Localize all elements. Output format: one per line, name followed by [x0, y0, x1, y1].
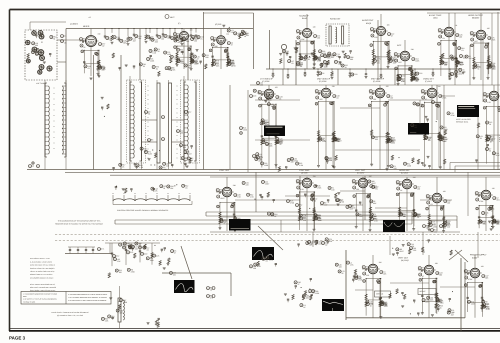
svg-text:56: 56: [280, 143, 282, 146]
svg-text:HORIZ OUTPUT: HORIZ OUTPUT: [468, 14, 484, 17]
svg-text:220: 220: [303, 219, 306, 222]
svg-text:47: 47: [311, 243, 313, 246]
svg-text:100: 100: [260, 84, 263, 87]
svg-text:2.2M: 2.2M: [174, 39, 178, 42]
svg-text:SYNC SEP: SYNC SEP: [219, 169, 230, 172]
svg-text:56: 56: [339, 201, 341, 204]
svg-text:100: 100: [318, 59, 321, 62]
svg-text:6AU6: 6AU6: [302, 17, 307, 20]
svg-text:.0047: .0047: [187, 153, 192, 156]
svg-text:56: 56: [53, 38, 55, 41]
svg-text:.001: .001: [496, 199, 500, 202]
svg-text:.01: .01: [375, 188, 378, 191]
svg-text:C25: C25: [156, 254, 159, 257]
svg-text:C22: C22: [419, 72, 422, 75]
svg-text:220: 220: [166, 165, 169, 168]
svg-text:.02: .02: [143, 65, 146, 68]
svg-text:220: 220: [451, 311, 454, 314]
svg-text:.005: .005: [269, 145, 273, 148]
svg-text:.01: .01: [496, 222, 499, 225]
svg-text:56: 56: [477, 67, 479, 70]
svg-text:R8: R8: [151, 139, 153, 142]
svg-text:(L) 6AL5: (L) 6AL5: [401, 172, 408, 175]
svg-text:2.2M: 2.2M: [299, 164, 303, 167]
svg-text:680: 680: [286, 52, 289, 55]
svg-text:100: 100: [373, 98, 376, 101]
svg-text:47: 47: [299, 206, 301, 209]
svg-text:.0047: .0047: [265, 183, 270, 186]
svg-text:136: 136: [492, 187, 495, 190]
svg-text:+45: +45: [88, 16, 91, 19]
svg-text:144: 144: [226, 33, 229, 36]
svg-text:.01: .01: [308, 58, 311, 61]
svg-text:C12: C12: [188, 111, 191, 114]
svg-text:100: 100: [119, 271, 122, 274]
svg-text:C18: C18: [253, 95, 256, 98]
svg-text:56: 56: [342, 272, 344, 275]
svg-text:100: 100: [331, 189, 334, 192]
svg-text:100: 100: [459, 36, 462, 39]
svg-text:266: 266: [379, 261, 382, 264]
svg-text:.01: .01: [156, 68, 159, 71]
svg-text:C22: C22: [130, 251, 133, 254]
svg-text:.02: .02: [102, 45, 105, 48]
svg-text:4. ALL VOLTAGES MEASURED WITH: 4. ALL VOLTAGES MEASURED WITH RESPECT TO…: [68, 297, 107, 299]
svg-text:2.2M: 2.2M: [195, 62, 199, 65]
svg-text:47: 47: [231, 44, 233, 47]
svg-text:100: 100: [186, 40, 189, 43]
svg-text:.02: .02: [146, 248, 149, 251]
svg-text:47: 47: [422, 275, 424, 278]
svg-text:.02: .02: [87, 67, 90, 70]
svg-text:.005: .005: [338, 63, 342, 66]
svg-text:12B4: 12B4: [433, 17, 437, 20]
svg-text:220: 220: [394, 167, 397, 170]
svg-text:100: 100: [317, 37, 320, 40]
svg-text:POWER SUPPLY: POWER SUPPLY: [470, 254, 487, 257]
svg-text:180: 180: [387, 23, 390, 26]
svg-text:.0047: .0047: [371, 182, 376, 185]
svg-text:AUDIO OUT: AUDIO OUT: [362, 19, 374, 22]
svg-text:.01: .01: [426, 227, 429, 230]
svg-text:(D) 6CB6: (D) 6CB6: [319, 80, 327, 83]
svg-text:(F) 6AL5: (F) 6AL5: [425, 80, 432, 83]
svg-text:.01: .01: [461, 49, 464, 52]
svg-text:.047: .047: [398, 61, 402, 64]
svg-text:56: 56: [158, 50, 160, 53]
svg-text:100: 100: [447, 202, 450, 205]
svg-text:238: 238: [332, 85, 335, 88]
svg-text:.005: .005: [154, 40, 158, 43]
svg-text:100: 100: [173, 274, 176, 277]
svg-text:.02: .02: [265, 259, 268, 262]
svg-text:2.2M: 2.2M: [269, 258, 273, 261]
svg-text:292: 292: [413, 176, 416, 179]
svg-text:.0047: .0047: [188, 66, 193, 69]
svg-text:.01: .01: [148, 113, 151, 116]
svg-text:(G) 6J6: (G) 6J6: [215, 23, 221, 26]
svg-text:.02: .02: [325, 244, 328, 247]
svg-text:.01: .01: [185, 187, 188, 190]
svg-text:47: 47: [197, 57, 199, 60]
svg-text:56: 56: [109, 39, 111, 42]
svg-text:.02: .02: [336, 97, 339, 100]
svg-text:680: 680: [350, 58, 353, 61]
svg-text:SERVICE DATA: SERVICE DATA: [456, 121, 469, 124]
svg-text:.0047: .0047: [491, 138, 496, 141]
svg-text:56: 56: [492, 67, 494, 70]
svg-text:5U4G: 5U4G: [472, 257, 478, 260]
svg-text:220: 220: [447, 226, 450, 229]
svg-text:220: 220: [366, 274, 369, 277]
svg-text:.047: .047: [318, 243, 322, 246]
svg-text:56: 56: [489, 150, 491, 153]
svg-text:680: 680: [35, 44, 38, 47]
svg-text:.0047: .0047: [399, 250, 404, 253]
svg-text:C42: C42: [116, 255, 119, 258]
svg-text:.01: .01: [300, 65, 303, 68]
svg-text:(J) 6SN7: (J) 6SN7: [301, 172, 308, 175]
svg-text:255: 255: [386, 85, 389, 88]
svg-text:220: 220: [135, 247, 138, 250]
svg-text:.047: .047: [327, 63, 331, 66]
svg-text:.047: .047: [102, 68, 106, 71]
svg-text:680: 680: [415, 79, 418, 82]
svg-text:NOTE: ALIGN PER: NOTE: ALIGN PER: [456, 118, 471, 121]
svg-text:.02: .02: [417, 216, 420, 219]
svg-text:100: 100: [161, 38, 164, 41]
svg-text:56: 56: [83, 46, 85, 49]
svg-text:47: 47: [391, 35, 393, 38]
svg-text:220: 220: [339, 265, 342, 268]
svg-text:(K) 6SN7: (K) 6SN7: [357, 172, 364, 175]
svg-text:MIXER: MIXER: [83, 25, 90, 28]
svg-text:.047: .047: [474, 40, 478, 43]
svg-text:152: 152: [275, 86, 278, 89]
svg-text:C20: C20: [354, 73, 357, 76]
svg-text:198: 198: [435, 262, 438, 265]
svg-text:.05: .05: [64, 42, 67, 45]
svg-text:C71: C71: [101, 248, 104, 251]
svg-text:220: 220: [246, 184, 249, 187]
svg-text:100: 100: [443, 227, 446, 230]
svg-text:PAGE 3: PAGE 3: [9, 336, 26, 341]
svg-text:.0047: .0047: [220, 197, 225, 200]
svg-text:C6: C6: [322, 72, 324, 75]
svg-text:220: 220: [483, 222, 486, 225]
svg-text:159: 159: [98, 33, 101, 36]
svg-text:2.2M: 2.2M: [148, 153, 152, 156]
svg-text:C1: C1: [64, 35, 66, 38]
svg-text:.0047: .0047: [323, 66, 328, 69]
svg-text:6BQ6GT: 6BQ6GT: [472, 17, 480, 20]
svg-text:C59: C59: [402, 75, 405, 78]
svg-text:RATIO DET: RATIO DET: [330, 18, 341, 21]
svg-text:.01: .01: [430, 203, 433, 206]
svg-text:169: 169: [443, 190, 446, 193]
svg-text:220: 220: [183, 146, 186, 149]
svg-text:169: 169: [481, 265, 484, 268]
svg-text:.0047: .0047: [144, 149, 149, 152]
svg-text:.001: .001: [306, 297, 310, 300]
svg-text:.005: .005: [349, 208, 353, 211]
svg-text:.01: .01: [442, 37, 445, 40]
svg-text:100: 100: [390, 97, 393, 100]
svg-text:680: 680: [120, 311, 123, 314]
svg-text:47: 47: [224, 222, 226, 225]
svg-text:680: 680: [215, 45, 218, 48]
svg-text:.0047: .0047: [458, 73, 463, 76]
svg-text:100: 100: [356, 188, 359, 191]
svg-text:.005: .005: [263, 124, 267, 127]
svg-text:(M) 6AQ5: (M) 6AQ5: [401, 259, 409, 262]
svg-text:256: 256: [438, 85, 441, 88]
svg-text:47: 47: [425, 98, 427, 101]
svg-text:8.2K: 8.2K: [496, 154, 500, 157]
svg-text:680: 680: [206, 56, 209, 59]
svg-text:3. VOLTAGES MEASURED WITH VTVM: 3. VOLTAGES MEASURED WITH VTVM NO SIGNAL…: [68, 294, 107, 296]
svg-text:220: 220: [425, 301, 428, 304]
svg-text:(E) 6CB6: (E) 6CB6: [373, 80, 380, 83]
svg-text:(F): (F): [178, 22, 181, 25]
svg-text:(A) 6BC5: (A) 6BC5: [70, 23, 78, 26]
svg-text:CONTROL RESISTOR VALUES SHOWN: CONTROL RESISTOR VALUES SHOWN IN NORMAL …: [117, 209, 169, 212]
svg-text:56: 56: [163, 187, 165, 190]
svg-text:149: 149: [313, 25, 316, 28]
svg-text:.047: .047: [434, 231, 438, 234]
svg-text:100: 100: [374, 36, 377, 39]
svg-text:47: 47: [338, 140, 340, 143]
svg-text:2. AC SUPPLY 117 VOLTS AT CHAS: 2. AC SUPPLY 117 VOLTS AT CHASSIS REFERE…: [23, 299, 57, 301]
svg-text:.047: .047: [402, 79, 406, 82]
svg-text:.02: .02: [403, 215, 406, 218]
svg-text:.02: .02: [291, 62, 294, 65]
svg-text:220: 220: [414, 126, 417, 129]
svg-text:.005: .005: [375, 138, 379, 141]
svg-text:.001: .001: [328, 159, 332, 162]
svg-text:47: 47: [231, 65, 233, 68]
svg-text:5. ALL RESISTORS 1/2 WATT UNLE: 5. ALL RESISTORS 1/2 WATT UNLESS NOTED O…: [68, 300, 106, 302]
svg-text:248: 248: [411, 48, 414, 51]
svg-text:248: 248: [233, 184, 236, 187]
svg-text:AGC: AGC: [397, 44, 402, 47]
svg-text:1. IF ALIGNMENT GENERATOR COUP: 1. IF ALIGNMENT GENERATOR COUPLED TO MIX…: [23, 293, 57, 295]
svg-text:.001: .001: [416, 104, 420, 107]
svg-text:.005: .005: [105, 320, 109, 323]
svg-text:(C) 6CB6: (C) 6CB6: [262, 80, 270, 83]
svg-text:4.5 MC TRAP: 4.5 MC TRAP: [429, 14, 442, 17]
svg-text:VOLTAGE TO GND.: VOLTAGE TO GND.: [23, 301, 36, 303]
svg-text:47: 47: [122, 245, 124, 248]
svg-text:6AQ5: 6AQ5: [366, 22, 372, 25]
svg-text:2.2M: 2.2M: [460, 63, 464, 66]
svg-text:C40: C40: [144, 253, 147, 256]
svg-text:4BZ7: 4BZ7: [170, 16, 175, 19]
svg-text:47: 47: [174, 252, 176, 255]
svg-text:.005: .005: [319, 98, 323, 101]
svg-text:56: 56: [314, 200, 316, 203]
svg-text:.005: .005: [413, 249, 417, 252]
svg-text:.005: .005: [258, 160, 262, 163]
svg-text:47: 47: [298, 283, 300, 286]
svg-text:L4: L4: [32, 165, 34, 168]
svg-text:.047: .047: [132, 39, 136, 42]
svg-text:.0047: .0047: [444, 138, 449, 141]
svg-text:C13: C13: [454, 73, 457, 76]
svg-text:680: 680: [439, 274, 442, 277]
svg-text:47: 47: [491, 210, 493, 213]
svg-text:680: 680: [392, 142, 395, 145]
svg-text:56: 56: [440, 306, 442, 309]
svg-text:.01: .01: [480, 137, 483, 140]
svg-text:.047: .047: [271, 105, 275, 108]
svg-text:195: 195: [487, 27, 490, 30]
svg-text:220: 220: [417, 188, 420, 191]
svg-text:GRID.: GRID.: [23, 296, 27, 298]
svg-text:220: 220: [420, 105, 423, 108]
